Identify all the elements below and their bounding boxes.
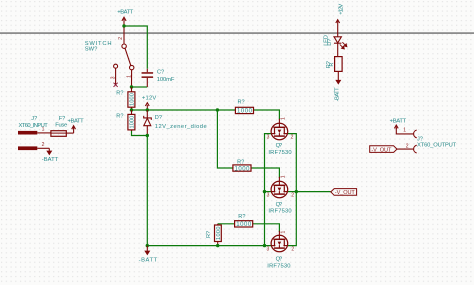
junction R1 bottom / bus — [130, 108, 133, 111]
power symbol +BATT at J-out — [394, 125, 398, 129]
svg-text:-V_OUT: -V_OUT — [335, 190, 356, 196]
pin1 wire to fuse — [37, 132, 51, 134]
svg-text:R: R — [329, 63, 335, 67]
wire gate row 3 left — [218, 223, 235, 225]
svg-text:R?: R? — [116, 91, 123, 97]
junction zener bottom — [146, 134, 149, 137]
wire -BATT bottom rail — [147, 245, 271, 247]
connector J2 pin2 arc — [414, 145, 417, 153]
svg-text:1: 1 — [281, 231, 287, 234]
svg-text:IRF7530: IRF7530 — [268, 150, 291, 156]
wire +BATT to top-right corner — [124, 26, 147, 69]
junction bus gate-row drop — [216, 108, 219, 111]
wire +12V bus — [132, 109, 236, 111]
svg-text:+BATT: +BATT — [390, 118, 407, 124]
sheet divider line — [0, 32, 474, 34]
capacitor C1 — [146, 69, 148, 87]
svg-text:12V_zener_diode: 12V_zener_diode — [155, 124, 207, 130]
wire switch pin1 to cap bottom — [132, 86, 148, 88]
svg-text:2: 2 — [291, 247, 294, 253]
connector J1 XT60_INPUT pin1 — [18, 131, 37, 135]
svg-text:2: 2 — [291, 134, 294, 140]
svg-text:D?: D? — [155, 115, 162, 121]
fuse F1 — [51, 131, 66, 137]
svg-text:2: 2 — [118, 37, 124, 40]
wire right drain rail — [288, 134, 297, 246]
pin2 wire — [37, 147, 49, 149]
svg-text:2: 2 — [406, 144, 409, 150]
svg-text:3: 3 — [267, 247, 270, 253]
power symbol +BATT top — [122, 17, 126, 26]
svg-text:Q?: Q? — [276, 202, 283, 208]
svg-text:2: 2 — [42, 142, 45, 148]
svg-text:R?: R? — [237, 159, 244, 165]
wire bus to Q1 gate — [254, 110, 280, 120]
power symbol -BATT bottom — [146, 246, 148, 251]
resistor R2 vertical — [131, 110, 133, 114]
svg-text:1000: 1000 — [130, 93, 136, 106]
wire +BATT to J-out pin1 — [396, 128, 413, 134]
switch SW1 SPDT — [114, 28, 134, 86]
svg-text:LED: LED — [323, 35, 329, 46]
svg-text:1000: 1000 — [237, 109, 253, 115]
gate resistor R5 horizontal (Q3) — [235, 221, 253, 227]
svg-text:+12V: +12V — [142, 96, 157, 102]
wire left rail stub Q2 — [265, 191, 272, 193]
junction switch/cap/R node — [130, 85, 133, 88]
svg-text:Q?: Q? — [276, 257, 283, 263]
svg-text:1: 1 — [127, 75, 133, 78]
svg-text:2: 2 — [291, 193, 294, 199]
svg-text:+12V: +12V — [338, 4, 344, 15]
svg-text:3: 3 — [267, 134, 270, 140]
junction -BATT rail left — [146, 244, 149, 247]
svg-text:100mF: 100mF — [157, 77, 175, 83]
svg-text:J?: J? — [417, 137, 423, 143]
wire -V_OUT label to J-out pin2 — [397, 148, 413, 150]
global label -V_OUT (at J-out) — [370, 146, 397, 153]
mosfet Q3 IRF7530 — [271, 231, 288, 252]
global label -V_OUT (at Q2) — [331, 189, 357, 196]
gate resistor R3 horizontal (Q1) — [235, 107, 253, 113]
resistor R1 vertical — [131, 87, 133, 92]
junction right rail Q2 — [295, 190, 298, 193]
junction at +BATT top — [122, 24, 125, 27]
wire gate row 2 to Q2 gate — [251, 168, 279, 178]
svg-text:1000: 1000 — [235, 166, 251, 172]
power symbol +12V (LED branch, rotated label) — [336, 20, 340, 37]
connector J1 XT60_INPUT pin2 — [18, 146, 37, 150]
gate resistor R4 horizontal (Q2) — [233, 165, 251, 171]
svg-text:XT60_INPUT: XT60_INPUT — [19, 123, 49, 129]
svg-text:IRF7530: IRF7530 — [267, 263, 290, 269]
svg-text:3: 3 — [267, 193, 270, 199]
svg-text:Fuse: Fuse — [55, 123, 67, 129]
svg-text:-BATT: -BATT — [42, 157, 59, 163]
LED emission arrows — [340, 42, 347, 49]
svg-text:-BATT: -BATT — [334, 87, 340, 101]
svg-text:IRF7530: IRF7530 — [268, 209, 291, 215]
svg-text:SW?: SW? — [85, 47, 98, 53]
connector J2 pin1 arc — [414, 130, 417, 138]
wire R2 bottom elbow — [132, 131, 148, 136]
wire to -V_OUT label — [296, 191, 331, 193]
svg-text:1: 1 — [403, 128, 406, 134]
svg-text:C?: C? — [157, 70, 164, 76]
mosfet Q2 IRF7530 — [271, 177, 288, 198]
wire left source rail — [265, 134, 272, 246]
svg-text:R?: R? — [116, 114, 123, 120]
resistor R7 vertical (LED) — [335, 57, 343, 72]
wire zener node long drop — [146, 136, 148, 246]
junction R6 bottom — [216, 244, 219, 247]
wire right rail stub Q2 — [288, 191, 297, 193]
power symbol +12V — [145, 103, 149, 110]
svg-text:R?: R? — [238, 100, 245, 106]
svg-text:+BATT: +BATT — [68, 119, 85, 125]
svg-text:R?: R? — [238, 214, 245, 220]
wire bus drop to gate row 2 — [217, 110, 233, 168]
svg-text:J?: J? — [31, 116, 37, 122]
mosfet Q1 IRF7530 — [271, 119, 288, 140]
svg-text:-V_OUT: -V_OUT — [371, 148, 392, 154]
svg-text:Q?: Q? — [276, 143, 283, 149]
svg-text:1000: 1000 — [236, 222, 252, 228]
wire gate row 3 to Q3 gate — [253, 224, 280, 232]
svg-text:F?: F? — [59, 116, 66, 122]
pull-down resistor R6 vertical — [217, 224, 219, 225]
svg-text:1: 1 — [281, 117, 287, 120]
power symbol +BATT after fuse — [66, 126, 75, 133]
svg-text:3: 3 — [111, 76, 117, 79]
svg-text:-BATT: -BATT — [139, 257, 158, 263]
power symbol -BATT (LED branch, rotated label) — [335, 80, 341, 85]
svg-text:R?: R? — [206, 231, 212, 238]
svg-text:+BATT: +BATT — [117, 9, 133, 15]
junction left rail bottom — [263, 244, 266, 247]
svg-text:XT60_OUTPUT: XT60_OUTPUT — [417, 143, 457, 149]
diode D2 LED — [334, 37, 341, 57]
zener diode D1 — [144, 110, 152, 136]
svg-text:1: 1 — [281, 175, 287, 178]
power symbol -BATT at J1 — [48, 148, 50, 151]
svg-text:1000: 1000 — [216, 227, 222, 241]
junction left rail Q2 — [263, 190, 266, 193]
no-connect X on switch pin 3 — [114, 83, 118, 87]
junction +12V tap — [146, 108, 149, 111]
svg-text:1000: 1000 — [130, 116, 136, 129]
